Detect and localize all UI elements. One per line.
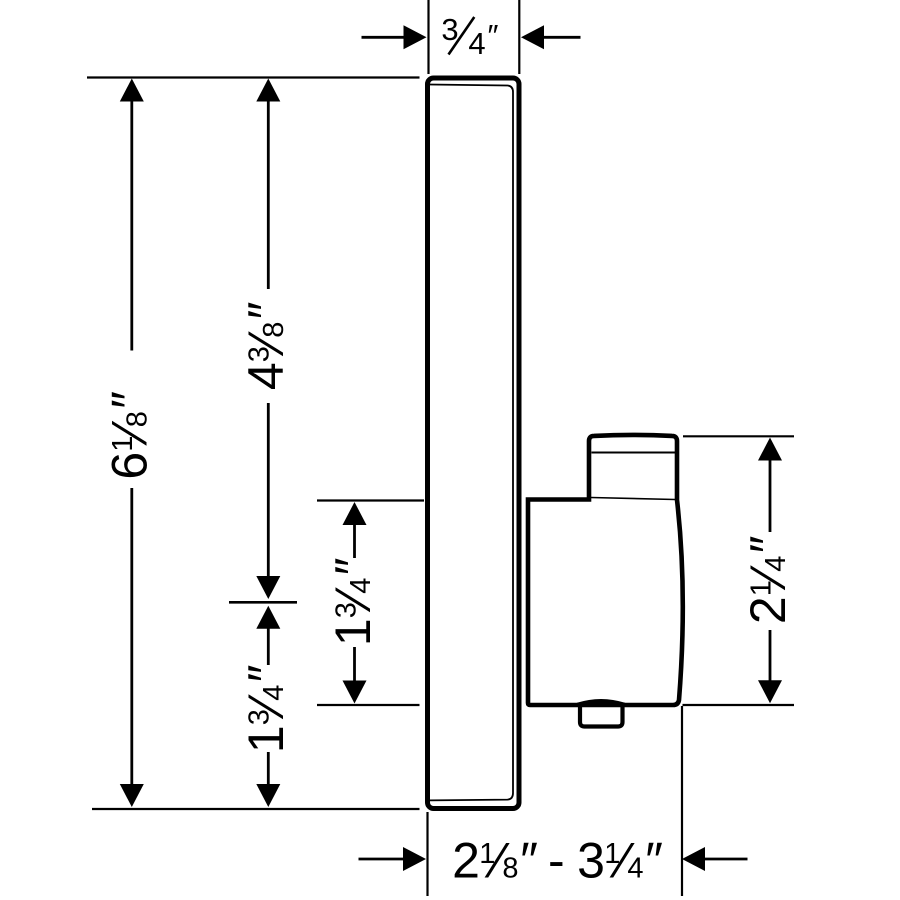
svg-text:13⁄4″: 13⁄4″ [325, 558, 381, 646]
bottom dimension: left extension line [426, 812, 428, 896]
top width dimension: extension line right [518, 0, 520, 74]
dimension 4 3/8: line [267, 99, 270, 289]
bottom dimension: right extension line [681, 706, 683, 896]
dimension 1 3/4 inner: bottom extension line [317, 704, 420, 706]
svg-text:21⁄4″: 21⁄4″ [740, 536, 796, 624]
dimension 6 1/8: line [130, 99, 133, 351]
dimension 2 1/4: line [769, 458, 772, 532]
left dims: top extension line [87, 76, 420, 78]
dimension 1 3/4 inner: down arrow [343, 681, 367, 704]
tick between 4 3/8 and lower 1 3/4 [229, 601, 297, 604]
bottom dimension: left arrow [359, 858, 405, 861]
dimension 6 1/8: down arrow [120, 784, 144, 807]
dimension 2 1/4: down arrow [758, 680, 782, 703]
dimension 2 1/4: up arrow [758, 438, 782, 461]
svg-text:61⁄8″: 61⁄8″ [102, 391, 158, 479]
label 3/4 inch [441, 12, 498, 61]
dimension 1 3/4 inner: up arrow [343, 502, 367, 525]
trim plate inner bevel line [430, 85, 514, 801]
svg-text:13⁄4″: 13⁄4″ [238, 665, 294, 753]
svg-text:4: 4 [468, 26, 485, 61]
top width dimension: left arrow [362, 36, 405, 39]
dimension 1 3/4 left: down arrow [256, 784, 280, 807]
dimension 1 3/4 left: line [267, 628, 270, 665]
dimension 1 3/4 left: up arrow [256, 606, 280, 629]
dimension 4 3/8: up arrow [256, 79, 280, 102]
valve body outline [528, 435, 683, 705]
top width dimension: extension line left [427, 0, 429, 74]
dimension 1 3/4 inner: top extension line [317, 499, 424, 501]
left dims: bottom extension line [92, 808, 420, 810]
svg-text:″: ″ [486, 18, 498, 53]
bottom dimension: right arrow [705, 858, 748, 861]
dimension 6 1/8: up arrow [120, 79, 144, 102]
svg-text:43⁄8″: 43⁄8″ [238, 302, 294, 390]
bottom nub [578, 701, 625, 726]
dimension 4 3/8: down arrow [256, 576, 280, 599]
knob inner top line [592, 452, 676, 454]
top width dimension: right arrow [544, 36, 581, 39]
trim plate outer outline [428, 78, 520, 809]
dimension 1 3/4 inner: line [353, 523, 356, 558]
dimension 2 1/4: bottom extension line [683, 704, 795, 706]
dimension 2 1/4: top extension line [683, 435, 794, 437]
knob base thin line [591, 498, 675, 500]
